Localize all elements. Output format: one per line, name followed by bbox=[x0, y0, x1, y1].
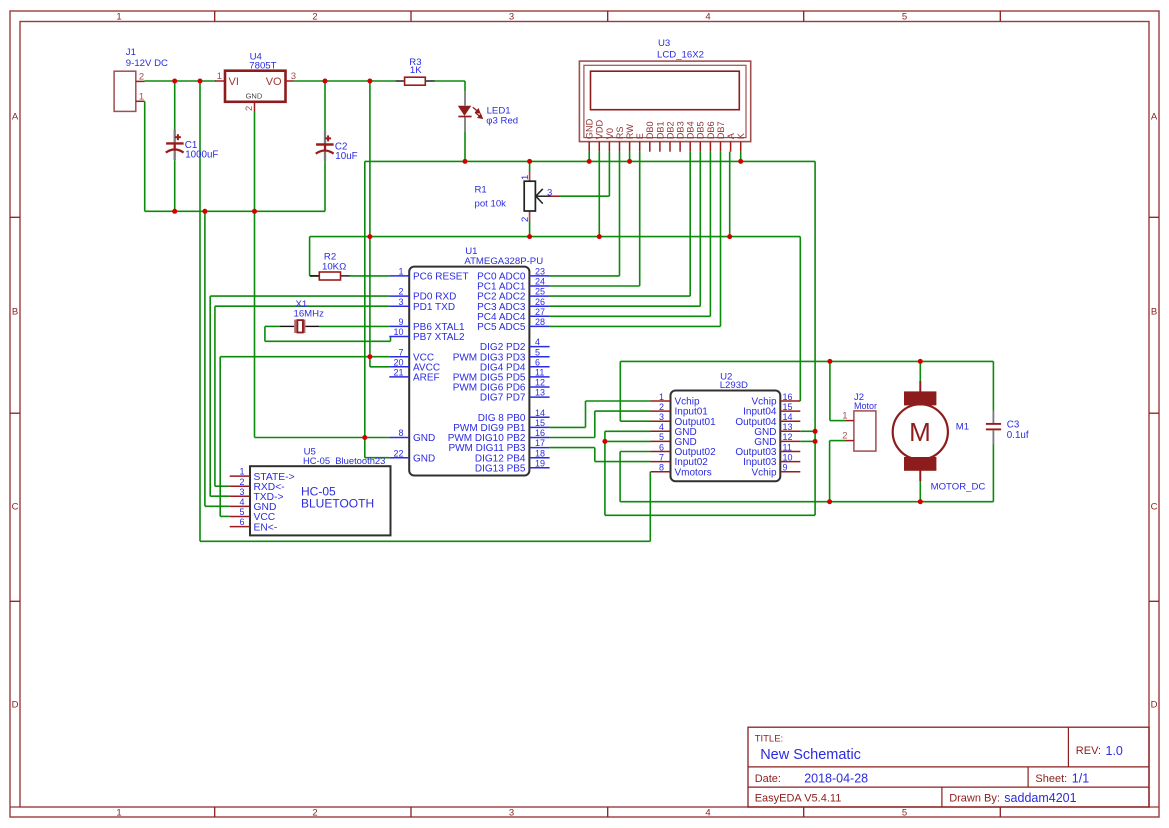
svg-text:1: 1 bbox=[116, 807, 121, 818]
wire LCD DB4 to U1 pin25 bbox=[550, 152, 691, 296]
svg-text:1/1: 1/1 bbox=[1072, 772, 1089, 786]
svg-text:VO: VO bbox=[266, 76, 282, 88]
wire pot wiper to LCD V0 bbox=[560, 152, 610, 197]
LCD U3 LCD_16X2 bbox=[579, 38, 750, 152]
svg-text:16: 16 bbox=[535, 428, 545, 438]
svg-text:MOTOR_DC: MOTOR_DC bbox=[931, 482, 986, 493]
regulator U4 7805T bbox=[215, 51, 296, 111]
wire motor bottom bbox=[919, 481, 921, 502]
svg-text:LCD_16X2: LCD_16X2 bbox=[657, 50, 704, 61]
svg-text:12: 12 bbox=[535, 378, 545, 388]
svg-text:0.1uf: 0.1uf bbox=[1007, 430, 1029, 441]
svg-text:26: 26 bbox=[535, 297, 545, 307]
svg-text:TITLE:: TITLE: bbox=[755, 733, 784, 744]
svg-text:11: 11 bbox=[535, 368, 544, 378]
wire U1 GND pin22 jog bbox=[365, 438, 390, 458]
svg-text:D: D bbox=[12, 700, 19, 711]
crystal X1 16MHz bbox=[280, 299, 324, 333]
wire LCD GND stub down bbox=[588, 152, 590, 162]
svg-text:ATMEGA328P-PU: ATMEGA328P-PU bbox=[464, 256, 543, 267]
svg-text:2: 2 bbox=[312, 807, 317, 818]
svg-text:B: B bbox=[1151, 307, 1157, 318]
svg-text:21: 21 bbox=[393, 368, 403, 378]
svg-text:10: 10 bbox=[783, 452, 793, 462]
svg-text:7: 7 bbox=[659, 452, 664, 462]
svg-text:GND: GND bbox=[585, 118, 595, 139]
wire LCD E to U1 pin24 bbox=[550, 152, 640, 286]
svg-text:Motor: Motor bbox=[854, 401, 877, 411]
svg-text:17: 17 bbox=[535, 438, 545, 448]
svg-text:10uF: 10uF bbox=[335, 151, 357, 162]
resistor R3 1K bbox=[396, 57, 435, 85]
wire U1 pin16 to U2 pin2 bbox=[550, 411, 651, 437]
wire C3 bottom bbox=[992, 445, 994, 502]
svg-text:1: 1 bbox=[398, 267, 403, 277]
wire U2 Output01 to motor top rail bbox=[620, 361, 993, 421]
svg-text:9-12V DC: 9-12V DC bbox=[126, 58, 168, 69]
svg-text:φ3 Red: φ3 Red bbox=[486, 116, 518, 127]
wire VCC pin7 bbox=[220, 356, 389, 358]
wire VCC down to U5 pin5 bbox=[220, 357, 230, 517]
svg-text:6: 6 bbox=[659, 442, 664, 452]
svg-text:DB5: DB5 bbox=[696, 121, 706, 139]
wire C3 top bbox=[992, 361, 994, 410]
wire U2 pin13 pin12 GND jogs bbox=[800, 431, 815, 441]
svg-text:4: 4 bbox=[705, 807, 710, 818]
svg-text:1.0: 1.0 bbox=[1106, 744, 1123, 758]
svg-text:GND: GND bbox=[413, 453, 435, 464]
svg-text:REV:: REV: bbox=[1076, 745, 1101, 757]
svg-text:2: 2 bbox=[842, 431, 847, 442]
svg-text:DIG13 PB5: DIG13 PB5 bbox=[475, 463, 526, 474]
svg-text:VDD: VDD bbox=[595, 119, 605, 139]
wire 5V rail y236 bbox=[310, 236, 801, 238]
svg-text:D: D bbox=[1151, 700, 1158, 711]
svg-text:3: 3 bbox=[547, 188, 552, 199]
wire LCD K to GND rail bbox=[740, 152, 742, 162]
svg-text:2: 2 bbox=[659, 402, 664, 412]
svg-text:14: 14 bbox=[535, 408, 545, 418]
svg-text:Vmotors: Vmotors bbox=[675, 467, 712, 478]
svg-text:6: 6 bbox=[239, 517, 244, 527]
svg-text:L293D: L293D bbox=[720, 380, 748, 391]
svg-text:10KΩ: 10KΩ bbox=[322, 261, 346, 272]
svg-text:14: 14 bbox=[783, 412, 793, 422]
module U5 HC-05 Bluetooth bbox=[230, 447, 391, 536]
wire J2 pin1 riser bbox=[830, 361, 846, 420]
svg-text:5: 5 bbox=[535, 347, 540, 357]
svg-text:M1: M1 bbox=[956, 421, 969, 432]
capacitor C1 1000uF bbox=[166, 130, 219, 161]
svg-text:1: 1 bbox=[520, 175, 531, 180]
svg-text:1: 1 bbox=[217, 71, 222, 82]
svg-text:24: 24 bbox=[535, 277, 545, 287]
wire motor top bbox=[919, 361, 921, 381]
svg-text:3: 3 bbox=[659, 412, 664, 422]
capacitor C3 0.1uf bbox=[986, 411, 1029, 445]
svg-text:DB3: DB3 bbox=[676, 121, 686, 139]
IC U1 ATMEGA328P-PU bbox=[389, 246, 549, 475]
svg-text:7805T: 7805T bbox=[249, 61, 276, 72]
wire LCD VDD to 5V rail bbox=[598, 152, 600, 237]
svg-text:1: 1 bbox=[842, 411, 847, 422]
wire LCD DB5 to U1 pin26 bbox=[550, 152, 701, 307]
wire VIN 9-12V top rail bbox=[145, 80, 466, 82]
wire U1 PD1 to U5 RXD bbox=[215, 306, 389, 486]
potentiometer R1 pot 10k bbox=[475, 172, 560, 222]
svg-text:20: 20 bbox=[393, 357, 403, 367]
connector J1 bbox=[114, 47, 168, 112]
wire J1 pin1 down bbox=[144, 101, 146, 211]
svg-text:RS: RS bbox=[615, 126, 625, 139]
svg-text:12: 12 bbox=[783, 432, 793, 442]
wire LCD RW to GND rail bbox=[629, 152, 631, 162]
svg-text:saddam4201: saddam4201 bbox=[1004, 791, 1076, 805]
svg-text:EN<-: EN<- bbox=[254, 522, 278, 533]
resistor R2 10KOhm bbox=[310, 252, 349, 281]
svg-text:C: C bbox=[1151, 502, 1158, 513]
svg-text:Vchip: Vchip bbox=[751, 467, 776, 478]
title block bbox=[748, 727, 1149, 807]
svg-text:EasyEDA V5.4.11: EasyEDA V5.4.11 bbox=[755, 793, 842, 805]
svg-text:22: 22 bbox=[393, 448, 403, 458]
svg-text:19: 19 bbox=[535, 458, 545, 468]
svg-text:1: 1 bbox=[116, 11, 121, 22]
svg-text:2: 2 bbox=[520, 217, 531, 222]
svg-text:2: 2 bbox=[244, 106, 255, 111]
wire R2 to 5V rail bbox=[310, 237, 320, 276]
svg-text:Date:: Date: bbox=[755, 773, 781, 785]
svg-text:2: 2 bbox=[239, 477, 244, 487]
wire U1 PD0 to U5 TXD bbox=[210, 296, 389, 496]
wire GND riser x815 bbox=[605, 161, 815, 515]
svg-text:pot 10k: pot 10k bbox=[475, 199, 507, 210]
svg-text:2: 2 bbox=[139, 71, 144, 82]
svg-text:K: K bbox=[736, 132, 746, 139]
svg-text:Sheet:: Sheet: bbox=[1035, 773, 1067, 785]
svg-text:16MHz: 16MHz bbox=[294, 308, 325, 319]
svg-text:4: 4 bbox=[239, 497, 244, 507]
svg-text:13: 13 bbox=[535, 388, 545, 398]
svg-text:3: 3 bbox=[509, 11, 514, 22]
svg-text:Drawn By:: Drawn By: bbox=[949, 793, 1000, 805]
svg-text:C3: C3 bbox=[1007, 419, 1020, 430]
svg-text:U3: U3 bbox=[658, 38, 670, 49]
svg-text:1: 1 bbox=[239, 467, 244, 477]
svg-text:1: 1 bbox=[659, 392, 664, 402]
wire 9V bottom rail to Vmotors bbox=[200, 472, 650, 542]
wire GND drop x204.9 to U5 pin4 bbox=[205, 211, 230, 506]
svg-text:15: 15 bbox=[783, 402, 793, 412]
wire GND to U2 pin4 pin5 bbox=[605, 431, 651, 515]
wire GND rail y161 bbox=[365, 161, 815, 437]
svg-text:15: 15 bbox=[535, 418, 545, 428]
svg-text:DB7: DB7 bbox=[716, 121, 726, 139]
wire LCD DB6 to U1 pin27 bbox=[550, 152, 711, 317]
svg-text:8: 8 bbox=[398, 428, 403, 438]
svg-text:16: 16 bbox=[783, 392, 793, 402]
svg-text:DB0: DB0 bbox=[645, 121, 655, 139]
wire C1 connections bbox=[174, 81, 176, 211]
wire pot pin1 to GND rail bbox=[529, 161, 531, 172]
svg-text:3: 3 bbox=[509, 807, 514, 818]
svg-text:PC6 RESET: PC6 RESET bbox=[413, 272, 469, 283]
svg-text:4: 4 bbox=[659, 422, 664, 432]
wire AVCC pin20 bbox=[370, 357, 389, 367]
svg-text:23: 23 bbox=[535, 267, 545, 277]
svg-text:5: 5 bbox=[239, 507, 244, 517]
svg-text:A: A bbox=[12, 111, 19, 122]
svg-text:VI: VI bbox=[229, 76, 239, 88]
capacitor C2 10uF bbox=[316, 131, 358, 162]
svg-text:9: 9 bbox=[398, 317, 403, 327]
svg-text:1000uF: 1000uF bbox=[185, 150, 218, 161]
wire U4 GND down to U1 GND pin8 bbox=[255, 112, 390, 438]
svg-text:1K: 1K bbox=[410, 65, 422, 76]
svg-text:J1: J1 bbox=[126, 47, 136, 58]
svg-text:PB7 XTAL2: PB7 XTAL2 bbox=[413, 332, 465, 343]
wire J2 pin2 drop bbox=[830, 441, 846, 502]
svg-text:5: 5 bbox=[659, 432, 664, 442]
svg-text:A: A bbox=[1151, 111, 1158, 122]
svg-text:R1: R1 bbox=[475, 184, 487, 195]
wire 5V vertical x370 to VCC bbox=[369, 81, 371, 357]
svg-text:25: 25 bbox=[535, 287, 545, 297]
wire C2 connections bbox=[324, 81, 326, 211]
svg-text:GND: GND bbox=[246, 91, 263, 100]
svg-text:3: 3 bbox=[398, 297, 403, 307]
svg-text:4: 4 bbox=[705, 11, 710, 22]
svg-text:2: 2 bbox=[398, 287, 403, 297]
svg-text:BLUETOOTH: BLUETOOTH bbox=[301, 497, 374, 511]
wire U2 Output02 to motor bottom rail bbox=[620, 452, 993, 502]
wire 5V to U2 pin16 bbox=[799, 237, 801, 401]
svg-text:3: 3 bbox=[291, 71, 296, 82]
svg-text:8: 8 bbox=[659, 463, 664, 473]
svg-text:DB1: DB1 bbox=[655, 121, 665, 139]
svg-text:28: 28 bbox=[535, 317, 545, 327]
wire U1 pin17 to U2 pin7 bbox=[550, 448, 651, 462]
wire R2 to U1 pin1 bbox=[350, 275, 390, 277]
svg-text:18: 18 bbox=[535, 448, 545, 458]
LED1 red bbox=[458, 91, 518, 131]
svg-text:11: 11 bbox=[783, 442, 792, 452]
svg-text:V0: V0 bbox=[605, 128, 615, 139]
svg-text:3: 3 bbox=[239, 487, 244, 497]
wire XTAL2 loop bbox=[265, 326, 391, 341]
svg-text:M: M bbox=[909, 417, 931, 447]
svg-text:7: 7 bbox=[398, 347, 403, 357]
wire LCD DB7 to U1 pin28 bbox=[550, 152, 721, 327]
svg-text:GND: GND bbox=[413, 433, 435, 444]
svg-text:5: 5 bbox=[902, 11, 907, 22]
svg-text:DIG7 PD7: DIG7 PD7 bbox=[480, 393, 526, 404]
svg-text:5: 5 bbox=[902, 807, 907, 818]
svg-text:9: 9 bbox=[783, 463, 788, 473]
svg-text:RW: RW bbox=[625, 124, 635, 139]
svg-text:A: A bbox=[726, 132, 736, 139]
wire XTAL1 bbox=[265, 325, 389, 327]
svg-text:HC-05_Bluetooth23: HC-05_Bluetooth23 bbox=[303, 455, 385, 466]
svg-text:10: 10 bbox=[393, 327, 403, 337]
svg-text:PD1 TXD: PD1 TXD bbox=[413, 302, 455, 313]
wire input GND rail y211 bbox=[145, 210, 325, 212]
wire LCD A to 5V rail bbox=[729, 152, 731, 237]
wire pot pin2 to 5V rail bbox=[529, 221, 531, 237]
svg-text:DB6: DB6 bbox=[706, 121, 716, 139]
wire LCD RS to U1 pin23 bbox=[550, 152, 620, 276]
svg-text:PC5 ADC5: PC5 ADC5 bbox=[477, 322, 526, 333]
svg-text:1: 1 bbox=[139, 91, 144, 102]
IC U2 L293D bbox=[651, 371, 801, 481]
svg-text:New Schematic: New Schematic bbox=[760, 747, 861, 763]
svg-text:27: 27 bbox=[535, 307, 545, 317]
svg-text:2018-04-28: 2018-04-28 bbox=[804, 772, 868, 786]
svg-text:6: 6 bbox=[535, 357, 540, 367]
svg-text:B: B bbox=[12, 307, 18, 318]
svg-text:DB2: DB2 bbox=[665, 121, 675, 139]
wire 9V vertical x200 bbox=[199, 81, 201, 541]
wire LED cathode to GND rail bbox=[464, 81, 466, 161]
svg-text:4: 4 bbox=[535, 337, 540, 347]
svg-text:C: C bbox=[12, 502, 19, 513]
svg-text:AREF: AREF bbox=[413, 373, 440, 384]
connector J2 Motor bbox=[842, 392, 877, 451]
svg-text:13: 13 bbox=[783, 422, 793, 432]
svg-text:DB4: DB4 bbox=[686, 121, 696, 139]
svg-text:2: 2 bbox=[312, 11, 317, 22]
svg-text:E: E bbox=[635, 133, 645, 139]
wire U1 pin15 to U2 pin1 bbox=[550, 401, 651, 427]
motor M1 MOTOR_DC bbox=[893, 381, 986, 493]
